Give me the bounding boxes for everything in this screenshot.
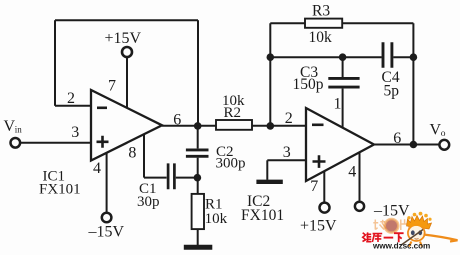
label C2	[216, 144, 234, 160]
node R2 pin2 junction	[267, 122, 275, 130]
svg-text:150p: 150p	[293, 76, 324, 93]
node bus right junction	[410, 53, 418, 61]
terminal +15V IC1	[122, 47, 132, 57]
label C3	[300, 64, 318, 81]
wire Vin to pin 3	[21, 142, 92, 144]
svg-text:R1: R1	[205, 196, 223, 212]
svg-text:30p: 30p	[137, 194, 160, 210]
svg-text:–15V: –15V	[88, 223, 125, 240]
svg-text:6: 6	[173, 112, 181, 129]
label C4	[382, 69, 400, 86]
wire C3 to pin 1 IC2	[342, 89, 344, 128]
svg-text:+15V: +15V	[105, 30, 142, 47]
wire C4 bus left	[270, 56, 381, 58]
label +15V IC2	[300, 218, 337, 235]
capacitor C1	[168, 163, 174, 189]
terminal +15V IC2	[320, 203, 330, 213]
pin 6 IC1	[173, 112, 181, 129]
pin 1 IC2	[334, 95, 342, 112]
pin 8 IC1	[128, 145, 136, 162]
wire node to C3	[342, 57, 344, 77]
ground at pin 3 IC2	[256, 180, 282, 184]
wire node to C2	[197, 126, 199, 149]
wire C4 bus right	[393, 56, 413, 58]
pin 4 IC1	[93, 160, 101, 177]
label FX101 IC2	[241, 207, 284, 224]
label R1	[205, 196, 223, 212]
label +15V IC1	[105, 30, 142, 47]
svg-text:8: 8	[128, 145, 136, 162]
label 10k R3	[309, 29, 333, 46]
capacitor C3	[328, 78, 359, 87]
label 150p C3	[293, 76, 324, 93]
label C1	[139, 181, 157, 197]
capacitor C4	[383, 42, 392, 68]
node IC1 output junction	[194, 122, 202, 130]
label R3	[312, 2, 330, 19]
svg-text:in: in	[15, 125, 23, 135]
wire feedback left vertical IC2	[269, 23, 271, 126]
wire feedback top IC2	[270, 22, 413, 24]
label -15V IC1	[88, 223, 125, 240]
label FX101 IC1	[39, 182, 81, 198]
resistor R1	[192, 194, 204, 229]
svg-text:www.dzsc.com: www.dzsc.com	[372, 242, 430, 251]
svg-text:o: o	[441, 129, 446, 139]
op-amp IC2	[306, 108, 374, 181]
svg-text:–15V: –15V	[373, 202, 410, 219]
wire +15V to pin 7 IC1	[126, 58, 128, 108]
svg-text:4: 4	[348, 163, 356, 180]
wire pin 3 IC2	[267, 159, 306, 161]
wire C1 to node	[176, 177, 198, 179]
svg-text:+15V: +15V	[300, 218, 337, 235]
wire feedback right vertical IC2	[412, 23, 414, 144]
label R2	[224, 105, 242, 121]
wire feedback right vertical IC1	[197, 20, 199, 126]
svg-text:7: 7	[108, 78, 116, 95]
wire pin 7 IC2 to +15V	[323, 171, 325, 201]
op-amp IC1	[91, 90, 162, 161]
pin 3 IC2	[283, 144, 291, 161]
svg-text:4: 4	[93, 160, 101, 177]
capacitor C2	[186, 150, 209, 156]
terminal -15V IC1	[102, 213, 112, 223]
svg-text:10k: 10k	[309, 29, 333, 46]
label 300p C2	[216, 155, 246, 171]
label IC2	[247, 193, 270, 210]
svg-text:7: 7	[310, 178, 318, 195]
svg-text:FX101: FX101	[241, 207, 284, 224]
watermark logo	[363, 212, 458, 251]
wire pin 4 IC1 to -15V	[106, 153, 108, 212]
svg-text:R2: R2	[224, 105, 242, 121]
wire IC1 output to R2	[162, 125, 216, 127]
label IC1	[43, 168, 66, 184]
wire R1 to ground	[197, 229, 199, 246]
wire feedback left vertical IC1	[54, 20, 56, 106]
label Vo	[430, 121, 446, 139]
ground below R1	[184, 245, 213, 250]
wire C2 to R1	[197, 158, 199, 194]
svg-text:3: 3	[283, 144, 291, 161]
wire IC2 output to Vo	[374, 144, 439, 146]
wire pin 8 IC1	[143, 134, 145, 177]
node C3 bus junction	[339, 53, 347, 61]
terminal Vin	[11, 138, 21, 148]
svg-text:5p: 5p	[384, 82, 400, 99]
node bus left junction	[267, 53, 275, 61]
pin 7 IC1	[108, 78, 116, 95]
svg-text:3: 3	[71, 124, 79, 141]
node IC2 output junction	[410, 141, 418, 149]
label 5p C4	[384, 82, 400, 99]
wire pin 4 IC2 to -15V	[359, 152, 361, 201]
svg-text:2: 2	[285, 110, 293, 127]
svg-text:300p: 300p	[216, 155, 246, 171]
svg-text:V: V	[430, 121, 442, 138]
resistor R3	[305, 19, 342, 28]
svg-text:R3: R3	[312, 2, 330, 19]
label 10k R1	[205, 211, 228, 227]
label 30p C1	[137, 194, 160, 210]
node C1 C2 R1 junction	[194, 174, 202, 182]
svg-text:2: 2	[67, 90, 75, 107]
wire feedback top IC1	[55, 19, 198, 21]
wire R2 to pin 2 IC2	[252, 125, 306, 127]
svg-text:FX101: FX101	[39, 182, 81, 198]
pin 6 IC2	[393, 130, 401, 147]
wire pin 2 input	[55, 105, 91, 107]
pin 4 IC2	[348, 163, 356, 180]
terminal Vo	[439, 140, 449, 150]
label Vin	[4, 118, 23, 135]
wire pin 3 IC2 to ground	[266, 160, 268, 180]
pin 2 IC1	[67, 90, 75, 107]
svg-text:1: 1	[334, 95, 342, 112]
wire pin 8 to C1	[144, 177, 167, 179]
label -15V IC2	[373, 202, 410, 219]
pin 7 IC2	[310, 178, 318, 195]
label 10k R2	[222, 93, 245, 109]
terminal -15V IC2	[355, 202, 364, 211]
pin 2 IC2	[285, 110, 293, 127]
pin 3 IC1	[71, 124, 79, 141]
svg-text:10k: 10k	[205, 211, 228, 227]
svg-text:6: 6	[393, 130, 401, 147]
resistor R2	[216, 120, 252, 130]
svg-text:V: V	[4, 118, 16, 135]
